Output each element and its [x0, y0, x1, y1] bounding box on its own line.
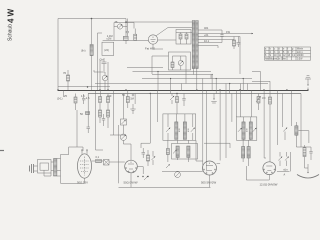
wire column x88 — [87, 94, 89, 123]
transformer T1 winding P — [192, 21, 195, 69]
svg-text:2x0,1: 2x0,1 — [297, 52, 303, 54]
coil L4 — [183, 122, 186, 139]
coil L3 — [175, 122, 178, 139]
wire column x231 — [231, 94, 233, 122]
wire — [296, 146, 311, 148]
wire stub — [242, 79, 244, 91]
trimmer capacitor C19 — [238, 128, 242, 132]
wire — [209, 175, 211, 187]
resistor R5 — [179, 34, 182, 39]
resistor R4 — [107, 34, 128, 40]
wire column x63 — [63, 91, 65, 98]
wire — [158, 39, 176, 41]
wire — [61, 147, 78, 155]
coil L6 — [187, 146, 190, 158]
wire — [202, 79, 204, 172]
coil L11 — [295, 122, 298, 147]
wire column x206 — [205, 91, 207, 172]
capacitor C18 trimmer — [166, 164, 170, 168]
ground arrow mid — [211, 94, 216, 104]
wire — [123, 140, 131, 144]
transformer T1 winding S — [196, 21, 199, 69]
capacitor C22 trimmer — [278, 152, 282, 166]
wire — [91, 56, 93, 91]
wire — [125, 19, 127, 45]
resistor R3 — [134, 29, 137, 41]
wire column x77 — [76, 110, 78, 147]
capacitor C9 — [82, 94, 90, 104]
resistor R2 — [63, 70, 70, 90]
node junctions on rails — [57, 86, 309, 94]
table tube data — [265, 47, 311, 60]
capacitor C24 — [283, 169, 288, 177]
tube V4 if — [203, 161, 217, 175]
svg-text:12,0Ω 0NV0W: 12,0Ω 0NV0W — [260, 183, 278, 187]
svg-text:Schaub: Schaub — [8, 24, 14, 41]
bandfilter box 2 — [172, 144, 198, 160]
table text — [265, 48, 304, 61]
wire stub — [181, 84, 183, 91]
svg-text:20000: 20000 — [297, 55, 304, 57]
svg-text:(0-1): (0-1) — [57, 97, 63, 101]
wire — [126, 21, 192, 23]
svg-text:1W: 1W — [226, 30, 230, 34]
resistor R16 — [176, 94, 179, 115]
wire column x135 — [134, 94, 136, 105]
wire — [173, 56, 187, 70]
wire — [114, 23, 134, 41]
svg-text:50Ω 53V: 50Ω 53V — [77, 181, 88, 185]
wire rail c — [142, 78, 252, 80]
wire — [94, 70, 105, 72]
wire — [168, 114, 193, 140]
wire column x220 — [219, 91, 221, 161]
wire — [100, 60, 108, 90]
tube V3 af — [125, 160, 138, 173]
trimmer capacitor C4 — [115, 20, 123, 29]
resistor R6 — [185, 34, 188, 39]
wire — [130, 173, 132, 188]
wire column x301 — [300, 94, 302, 148]
node junction — [91, 18, 93, 20]
edge mark — [0, 150, 4, 152]
resistor R11 — [99, 110, 102, 123]
wire column x251 — [251, 91, 253, 117]
wire — [299, 131, 309, 143]
wire — [77, 147, 83, 151]
wire — [305, 167, 309, 169]
capacitor C5 — [126, 28, 129, 36]
wire — [246, 166, 269, 180]
wire feedback rail b — [133, 71, 212, 73]
resistor R10 — [99, 91, 102, 111]
wire column x226 — [225, 84, 227, 159]
resistor R15 — [126, 91, 134, 109]
svg-text:4 W: 4 W — [7, 8, 16, 23]
coil L5 — [176, 146, 179, 158]
wire — [198, 39, 234, 41]
wire ground rail — [58, 90, 308, 92]
wire rail main — [58, 86, 110, 88]
wire — [252, 81, 270, 96]
wire heater rail — [88, 93, 301, 95]
resistor R21 — [96, 156, 102, 163]
node junction — [125, 21, 127, 23]
wire column x277 — [277, 91, 279, 146]
wire stub — [170, 79, 172, 94]
wire column x291 — [290, 91, 292, 127]
wire — [91, 19, 93, 45]
value labels below rails — [64, 93, 134, 98]
wire — [102, 161, 125, 162]
IF transformer box 1 — [163, 114, 196, 140]
value labels — [204, 26, 230, 43]
wire column x150 — [141, 94, 150, 149]
wire — [178, 140, 189, 162]
trimmer capacitor C28 — [144, 176, 148, 180]
wire stub — [215, 79, 217, 94]
resistor R17 — [166, 140, 169, 162]
wire — [198, 46, 218, 49]
loudspeaker — [30, 160, 52, 177]
svg-text:1,5: 1,5 — [81, 94, 85, 98]
svg-text:Werte: Werte — [297, 48, 304, 51]
capacitor C7 — [237, 37, 241, 48]
wire — [110, 91, 126, 136]
pot volume — [121, 119, 127, 125]
wire — [137, 167, 143, 175]
wire stub — [211, 75, 213, 91]
capacitor C26 — [142, 148, 146, 158]
tube V2 output — [78, 150, 92, 179]
resistor R13 — [107, 108, 110, 128]
antenna symbol — [305, 75, 311, 90]
svg-text:10.1: 10.1 — [204, 39, 210, 43]
capacitor C3 — [100, 58, 107, 67]
node cluster — [137, 176, 148, 177]
wire column x118 — [118, 125, 120, 183]
wire — [130, 144, 132, 160]
wire — [239, 37, 241, 75]
coil L1 antenna — [81, 45, 93, 56]
output transformer T2 — [54, 159, 57, 177]
trimmer capacitor C8 — [178, 60, 183, 65]
svg-text:505 5NV2W: 505 5NV2W — [201, 181, 216, 185]
resistor R14 — [80, 112, 90, 117]
wire — [236, 84, 251, 141]
wire column x264 — [263, 91, 265, 159]
shield box oscillator — [176, 30, 191, 45]
trimmer capacitor C2 — [102, 72, 108, 90]
wire bottom bus — [119, 186, 211, 188]
capacitor C12 — [130, 104, 135, 114]
trimmer capacitor C17 — [173, 150, 177, 154]
resistor R9 — [74, 94, 77, 111]
resistor R18 variable — [256, 94, 261, 111]
capacitor C27 trimmer — [152, 151, 156, 165]
svg-text:(6+): (6+) — [81, 50, 86, 53]
wire transformer bottom — [194, 69, 197, 91]
wire — [198, 33, 240, 35]
trimmer capacitor C21 — [283, 128, 287, 140]
capacitor C25 — [309, 147, 312, 160]
trimmer capacitor C16 — [191, 128, 195, 132]
resistor R20 — [303, 145, 306, 168]
resistor R19 — [269, 96, 272, 160]
wire — [51, 162, 61, 171]
switch box — [102, 38, 114, 56]
svg-text:0,5W: 0,5W — [297, 59, 303, 61]
shield box bandfilter mid — [169, 52, 191, 70]
wire rail d — [95, 83, 268, 85]
wire — [152, 75, 211, 79]
trimmer capacitor C15 — [166, 128, 170, 132]
svg-text:Gm: Gm — [100, 58, 105, 62]
wire column x282 — [282, 94, 284, 128]
resistor R22 — [147, 150, 150, 166]
coil L8 — [249, 122, 252, 139]
wire — [196, 140, 203, 161]
wire — [156, 28, 192, 36]
wire stub — [185, 70, 187, 84]
wire column x157 — [157, 91, 159, 123]
wire — [264, 158, 270, 162]
IF transformer box 2 — [237, 117, 257, 140]
pot P2 — [175, 171, 181, 177]
svg-text:Fat H02: Fat H02 — [145, 47, 155, 51]
wire feedback rail a — [127, 67, 163, 69]
wire — [114, 19, 127, 29]
tube V5 rect — [263, 162, 276, 175]
capacitor C10 — [102, 114, 105, 126]
wire — [57, 155, 61, 179]
wire — [277, 152, 291, 171]
svg-text:70: 70 — [63, 71, 67, 75]
coil L10 — [247, 147, 250, 159]
wire stub — [229, 84, 231, 94]
svg-text:1,5: 1,5 — [86, 96, 90, 100]
node junctions — [157, 71, 243, 84]
wire — [198, 42, 222, 44]
svg-text:0,1: 0,1 — [96, 156, 100, 159]
wire stub — [157, 72, 159, 91]
resistor R8 — [171, 62, 174, 68]
wire corner top right — [252, 72, 261, 91]
wire — [217, 163, 221, 165]
wire — [84, 178, 86, 183]
wire stub — [247, 84, 249, 91]
tube V1 mixer — [145, 35, 158, 51]
wire — [61, 179, 85, 184]
wire — [152, 56, 169, 74]
wire — [198, 29, 222, 31]
capacitor C23 trimmer — [285, 152, 289, 166]
chassis ground — [297, 164, 319, 178]
svg-text:50Ω 0NVW: 50Ω 0NVW — [124, 181, 138, 185]
capacitor C13 trimmer — [170, 94, 174, 105]
pot P1 — [120, 134, 126, 140]
trimmer capacitor C20 — [253, 128, 257, 132]
wire — [92, 160, 96, 162]
wire left vertical — [57, 19, 59, 91]
capacitor C14 — [182, 94, 185, 107]
resistor R7 — [233, 37, 236, 50]
wire — [98, 33, 103, 91]
capacitor C11 — [87, 122, 91, 133]
wire — [243, 140, 249, 166]
wire top horizontal — [58, 18, 126, 20]
wire — [153, 44, 163, 49]
wire mains tap — [240, 33, 253, 35]
wire column x95 — [96, 91, 104, 151]
svg-text:1M: 1M — [130, 97, 134, 101]
jack socket — [104, 160, 110, 166]
capacitor C6 — [220, 30, 223, 43]
svg-text:(24): (24) — [104, 49, 109, 52]
svg-text:1,1M: 1,1M — [107, 34, 113, 38]
wire column x123 — [122, 94, 124, 134]
wire — [162, 170, 203, 172]
coil L9 — [242, 147, 245, 159]
wire — [176, 33, 192, 45]
wire — [103, 39, 149, 41]
wire — [198, 36, 240, 38]
svg-text:+01: +01 — [204, 33, 209, 37]
coil L7 — [242, 122, 245, 139]
svg-text:1M: 1M — [262, 97, 265, 100]
wire — [204, 143, 230, 148]
title Schaub 4W — [7, 8, 16, 41]
svg-text:401: 401 — [204, 26, 209, 30]
svg-text:Alle Widerst. in Ohm: Alle Widerst. in Ohm — [265, 58, 286, 61]
resistor R12 — [107, 94, 110, 109]
